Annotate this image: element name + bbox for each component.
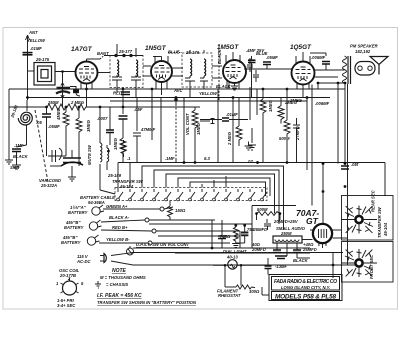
svg-text:6.3: 6.3 (204, 156, 210, 161)
svg-text:BATTERY: BATTERY (68, 210, 89, 215)
svg-text:BLACK A-: BLACK A- (109, 215, 130, 220)
svg-text:25MFD: 25MFD (302, 247, 317, 252)
svg-text:2 MEG: 2 MEG (70, 100, 85, 105)
svg-text:LONG ISLAND CITY, N.Y.: LONG ISLAND CITY, N.Y. (281, 285, 331, 290)
svg-text:25-177: 25-177 (118, 49, 133, 54)
svg-text:25-322A: 25-322A (40, 183, 57, 188)
svg-text:BATTERY: BATTERY (61, 240, 82, 245)
svg-text:4MEG: 4MEG (56, 107, 61, 121)
svg-text:.1MF: .1MF (165, 156, 175, 161)
svg-text:VOL CONT: VOL CONT (185, 113, 190, 135)
svg-text:REAR SEC: REAR SEC (371, 189, 376, 212)
svg-text:TRANSFER SW: TRANSFER SW (377, 206, 382, 238)
svg-text:94-36BA: 94-36BA (88, 200, 105, 205)
svg-text:25-189: 25-189 (107, 173, 122, 178)
svg-text:47MMF: 47MMF (140, 127, 156, 132)
svg-text:3MEG: 3MEG (86, 119, 91, 132)
svg-text:AVC: AVC (173, 88, 184, 93)
svg-text:.02: .02 (247, 159, 253, 164)
svg-text:BLACK: BLACK (217, 48, 222, 64)
svg-text:I.F. PEAK = 456 KC: I.F. PEAK = 456 KC (97, 293, 142, 299)
svg-text:PM SPEAKER: PM SPEAKER (350, 44, 378, 49)
svg-text:BLUE: BLUE (168, 50, 180, 55)
svg-text:MODELS P58 & PL58: MODELS P58 & PL58 (275, 294, 336, 301)
svg-text:.05F: .05F (134, 107, 143, 112)
svg-text:YELLOW B-: YELLOW B- (106, 237, 130, 242)
svg-text:TRANSFER SW SHOWN IN "BATTERY": TRANSFER SW SHOWN IN "BATTERY" POSITION (97, 300, 197, 305)
svg-text:500M: 500M (279, 136, 290, 141)
svg-text:.005MF: .005MF (311, 55, 326, 60)
svg-text:RHEOSTAT: RHEOSTAT (218, 293, 241, 298)
svg-text:M = THOUSAND OHMS: M = THOUSAND OHMS (100, 275, 146, 280)
svg-text:BATTERY: BATTERY (64, 225, 85, 230)
svg-text:-25MFD: -25MFD (252, 227, 267, 232)
svg-text:1MEG: 1MEG (196, 122, 201, 135)
svg-text:SMB: SMB (10, 165, 19, 170)
svg-text:BLACK: BLACK (216, 84, 232, 89)
svg-text:.05MF: .05MF (48, 124, 60, 129)
svg-text:-13MF: -13MF (275, 264, 288, 269)
svg-text:D.P.S.T. SW ON VOL CONT: D.P.S.T. SW ON VOL CONT (136, 242, 189, 247)
svg-text:BLACK: BLACK (13, 154, 29, 159)
svg-text:500M: 500M (257, 207, 268, 212)
svg-text:250M: 250M (280, 231, 292, 236)
svg-text:1N5GT: 1N5GT (145, 45, 167, 52)
svg-text:26-175: 26-175 (35, 57, 50, 62)
svg-text:20MFD+25V: 20MFD+25V (273, 219, 299, 224)
svg-text:40-13: 40-13 (226, 255, 238, 260)
svg-text:.0007: .0007 (97, 116, 108, 121)
svg-text:1A7GT: 1A7GT (71, 46, 93, 53)
svg-text:27MFD: 27MFD (295, 126, 300, 141)
svg-text:.05MF: .05MF (266, 55, 278, 60)
svg-text:DIAL LIGHT: DIAL LIGHT (223, 249, 247, 254)
svg-text:1MEG: 1MEG (113, 137, 118, 150)
svg-text:46-104: 46-104 (119, 184, 134, 189)
svg-text:ANT: ANT (28, 30, 38, 35)
svg-text:26-176: 26-176 (185, 50, 200, 55)
svg-text:300Ω: 300Ω (249, 289, 260, 294)
svg-text:.1MF: .1MF (14, 143, 24, 148)
svg-text:.4MF 25V: .4MF 25V (246, 48, 265, 53)
svg-text:750: 750 (247, 227, 255, 232)
svg-text:46-104: 46-104 (383, 222, 388, 237)
svg-text:GREEN A+: GREEN A+ (106, 204, 128, 209)
svg-text:20MFD: 20MFD (251, 247, 266, 252)
svg-text:YELLOW: YELLOW (27, 38, 46, 43)
svg-text:.01MF: .01MF (226, 112, 238, 117)
svg-text:MUTE SW: MUTE SW (87, 144, 92, 165)
svg-text:745Ω: 745Ω (220, 234, 231, 239)
svg-text:.006MF: .006MF (315, 101, 330, 106)
svg-text:YELLOW: YELLOW (199, 91, 218, 96)
svg-text:2 MEG: 2 MEG (227, 131, 232, 146)
svg-text:.01MF: .01MF (30, 46, 42, 51)
svg-text:3-4+ SEC: 3-4+ SEC (57, 303, 76, 308)
svg-text:BLACK: BLACK (293, 258, 309, 263)
svg-text:FRONT SEC: FRONT SEC (369, 254, 374, 279)
svg-text:RED B+: RED B+ (112, 225, 128, 230)
svg-text:NOTE: NOTE (112, 268, 127, 274)
svg-text:.05f: .05f (351, 162, 359, 167)
svg-text:= CHASSIS: = CHASSIS (106, 282, 128, 287)
svg-text:182,192: 182,192 (355, 49, 371, 54)
svg-text:150Ω: 150Ω (175, 208, 186, 213)
svg-text:250M: 250M (47, 100, 59, 105)
svg-text:AC-DC: AC-DC (76, 259, 91, 264)
svg-text:1Q5GT: 1Q5GT (290, 44, 312, 51)
